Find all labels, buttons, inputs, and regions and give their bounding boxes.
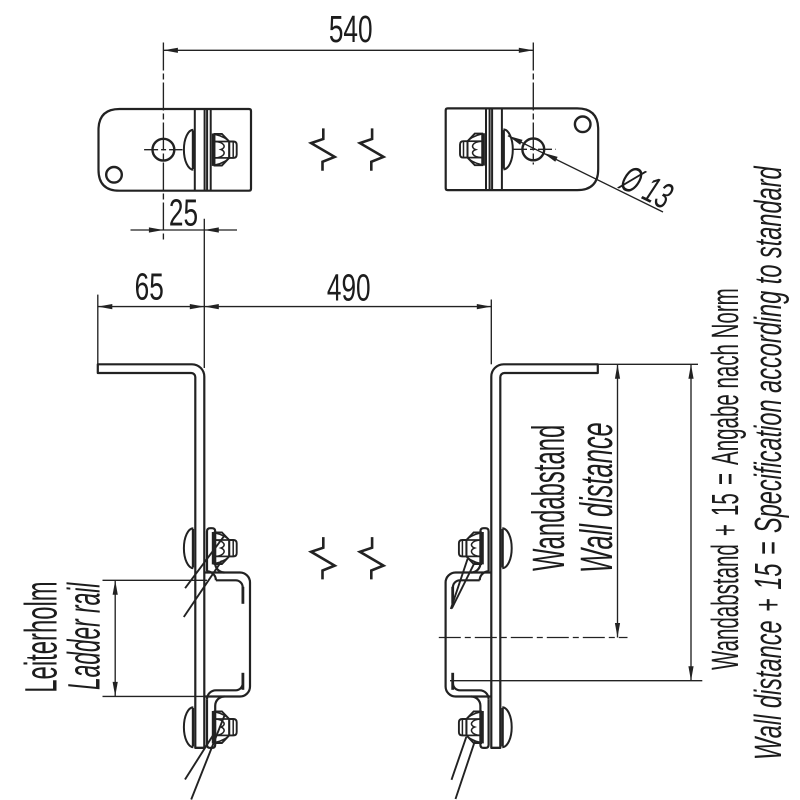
break symbol middle left	[311, 537, 335, 579]
ladder rail bottom flange	[471, 697, 488, 748]
Leiterholm arrow up	[113, 580, 118, 595]
svg-text:Wandabstand + 15 = Angabe nach: Wandabstand + 15 = Angabe nach Norm	[704, 288, 746, 670]
Wandabstand+15 arrow down	[688, 666, 693, 681]
break symbol middle right	[360, 537, 384, 579]
ladder rail bottom flange	[207, 697, 224, 748]
svg-text:25: 25	[169, 191, 198, 234]
leader arrow at dome	[508, 136, 523, 145]
wall plate bottom cap	[491, 747, 500, 749]
extension line arm top right	[598, 363, 698, 365]
dimension 25 right arrow	[204, 227, 219, 232]
bolt upper	[459, 528, 512, 568]
hatch line right lower bolt 2	[456, 741, 475, 799]
dimension 540 line	[163, 49, 533, 51]
bolt upper	[184, 528, 237, 568]
hatch line left upper bolt 2	[184, 561, 222, 617]
svg-text:Wall distance + 15 = Specifica: Wall distance + 15 = Specification accor…	[746, 165, 789, 760]
ladder rail lip bottom	[241, 673, 244, 690]
dimension 25 line	[131, 229, 238, 231]
centerline left hole horizontal	[144, 149, 182, 151]
ladder rail top flange	[207, 528, 224, 572]
ladder rail inner bottom	[453, 683, 489, 699]
Wandabstand dimension line	[617, 364, 619, 637]
hatch line left lower bolt 2	[191, 716, 224, 800]
Wandabstand arrow up	[615, 364, 620, 379]
hatch line left lower bolt 1	[185, 735, 214, 780]
bracket top view (left)	[99, 109, 252, 191]
rail centerline dash-dot	[439, 637, 628, 639]
Leiterholm extension line top	[103, 579, 208, 581]
ladder rail inner top	[207, 571, 243, 587]
bracket side view: L profile	[98, 364, 205, 748]
ladder rail inner top	[453, 571, 489, 587]
hatch line right upper bolt 1	[452, 562, 475, 608]
dimension 540 right arrow	[519, 48, 534, 53]
svg-text:540: 540	[329, 7, 373, 50]
Leiterholm arrow down	[113, 682, 118, 697]
Wandabstand+15 arrow up	[688, 364, 693, 379]
leader arrow at hole	[543, 153, 558, 162]
Wandabstand arrow down	[615, 623, 620, 638]
Wandabstand+15 dimension line	[690, 364, 692, 680]
bracket top view (right, rotated copy)	[446, 108, 599, 190]
dimension 540 left arrow	[163, 48, 178, 53]
dimension 65 right arrow	[190, 304, 205, 309]
centerline left hole vertical	[162, 43, 164, 240]
ladder rail lip bottom	[451, 673, 454, 690]
ladder rail lip top	[451, 587, 454, 604]
ladder rail inner bottom	[207, 683, 243, 699]
ladder rail crown outer	[446, 573, 491, 697]
hatch line right lower bolt 1	[452, 737, 467, 780]
centerline right hole horizontal	[513, 148, 556, 150]
svg-text:490: 490	[327, 266, 371, 309]
bolt lower	[459, 707, 512, 747]
side view right (mirrored)	[446, 364, 598, 748]
svg-text:Wall distance: Wall distance	[571, 422, 621, 573]
wall plate bottom cap	[195, 747, 204, 749]
dimension 490 left arrow	[204, 304, 219, 309]
bolt lower	[184, 707, 237, 747]
dimension 65 left arrow	[98, 304, 113, 309]
hatch line left upper bolt 1	[185, 536, 224, 589]
bracket side view: L profile	[491, 364, 598, 748]
svg-text:Wandabstand: Wandabstand	[523, 425, 574, 571]
Leiterholm extension line bottom	[103, 695, 205, 697]
extension line bottom (Wandabstand+15)	[450, 680, 702, 682]
dimension 490 extension line right	[490, 300, 492, 365]
ladder rail lip top	[241, 587, 244, 604]
ladder rail crown outer	[205, 573, 250, 697]
svg-text:65: 65	[135, 265, 164, 308]
Leiterholm dimension line	[114, 580, 116, 696]
dimension 25 left arrow	[149, 227, 164, 232]
dimension 65/490 line	[98, 306, 492, 308]
dimension 490 right arrow	[477, 304, 492, 309]
break symbol top left	[311, 128, 335, 170]
side view left	[98, 364, 250, 748]
leader line diameter 13	[508, 136, 663, 212]
centerline right hole vertical	[532, 43, 534, 165]
break symbol top right	[360, 128, 384, 170]
dimension 25 extension line right	[203, 219, 205, 368]
svg-text:Ladder rail: Ladder rail	[59, 582, 109, 690]
hatch line right upper bolt 2	[451, 559, 468, 609]
dimension 65 extension line left	[97, 295, 99, 365]
ladder rail top flange	[471, 528, 488, 572]
